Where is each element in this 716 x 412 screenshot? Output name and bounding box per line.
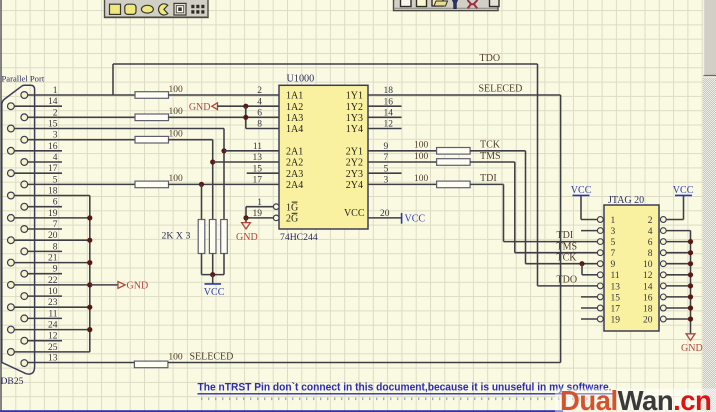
junction on left GND bus row 21: [87, 327, 92, 332]
svg-text:2: 2: [257, 86, 262, 96]
resistor R6 100 (TMS): [437, 159, 471, 166]
junction JTAG GND bus pin 18: [688, 305, 693, 310]
DB25 pin 4: [21, 159, 28, 166]
resistor R1 100 (row pin 1): [135, 92, 169, 99]
JTAG pin 5 circle: [597, 239, 603, 245]
wire DB25 pin 14 row: [14, 105, 62, 107]
svg-text:TMS: TMS: [480, 151, 501, 162]
svg-text:13: 13: [611, 282, 621, 292]
DB25 pin 10: [21, 293, 28, 300]
wire R1 output to U1000 pin 2: [169, 94, 280, 96]
JTAG pin 2 circle: [660, 217, 666, 223]
wire DB25 pin 18 row: [14, 195, 90, 197]
svg-text:8: 8: [53, 242, 58, 252]
wire R2 output to U1000 pin 6: [169, 116, 280, 118]
junction 2K common to VCC: [210, 272, 215, 277]
svg-text:VCC: VCC: [344, 208, 365, 219]
wire R3 output to corner at x=212.7: [169, 139, 213, 141]
svg-text:2: 2: [648, 216, 653, 226]
wire DB25 pin 4 row: [28, 161, 62, 163]
DB25 pin 3: [21, 136, 28, 143]
wire stub JTAG pin 20: [666, 318, 690, 320]
wire GND vertical 1A2-1A4: [245, 106, 247, 128]
svg-text:3: 3: [53, 131, 58, 141]
svg-text:DualWan.cn: DualWan.cn: [560, 385, 711, 412]
power port VCC above JTAG pin 2: [675, 194, 692, 196]
DB25 pin 11: [21, 315, 28, 322]
wire DB25 pin 15 row: [14, 128, 224, 130]
DB25 pin 14: [7, 103, 14, 110]
wire DB25 pin 8 row: [28, 250, 62, 252]
toolbar icon new sheet: [417, 0, 427, 7]
junction JTAG GND bus pin 16: [688, 294, 693, 299]
resistor RP1b 2K (vertical): [209, 220, 216, 254]
svg-text:2Y4: 2Y4: [346, 180, 363, 191]
svg-text:22: 22: [48, 276, 58, 286]
JTAG pin 10 circle: [660, 261, 666, 267]
JTAG pin 6 circle: [660, 239, 666, 245]
svg-text:1Y2: 1Y2: [346, 102, 363, 113]
wire stub JTAG pin 18: [666, 307, 690, 309]
DB25 pin 17: [7, 170, 14, 177]
JTAG pin 7 circle: [597, 250, 603, 256]
wire R4 output to U1000 pin 17: [169, 183, 280, 185]
wire stub JTAG pin 17: [581, 307, 597, 309]
DB25 pin 6: [21, 203, 28, 210]
resistor R7 100 (TDI): [437, 181, 471, 188]
svg-text:VCC: VCC: [673, 185, 694, 196]
wire DB25 pin 12 row: [28, 340, 62, 342]
wire DB25 pin 3 row: [28, 139, 135, 141]
svg-text:9: 9: [611, 260, 616, 270]
vertical scrollbar track: [703, 0, 716, 412]
power port GND (right-pointing) on DB25 ground bus: [90, 284, 118, 286]
power port VCC above JTAG pin 1: [573, 194, 590, 196]
wire SELECED vertical: [560, 95, 562, 363]
connector JTAG 20 body: [604, 205, 659, 331]
wire stub U1000 pin 16: [368, 105, 402, 107]
svg-text:12: 12: [48, 332, 58, 342]
toolbar icon filter funnel: [452, 0, 459, 9]
power port VCC below 2K resistors: [212, 275, 214, 284]
wire RTCK vertical pin9-pin11: [581, 264, 583, 275]
svg-text:6: 6: [53, 198, 58, 208]
wire TDO into JTAG pin 13: [538, 285, 598, 287]
wire TDO vertical down to JTAG pin 13: [537, 64, 539, 286]
wire stub JTAG pin 10: [666, 263, 690, 265]
svg-text:1Y4: 1Y4: [346, 124, 363, 135]
wire DB25 pin 13 row: [28, 362, 135, 364]
svg-text:15: 15: [48, 120, 58, 130]
JTAG pin 9 circle: [597, 261, 603, 267]
svg-text:6: 6: [648, 238, 653, 248]
wire TCK to corner: [470, 150, 525, 152]
wire TMS into JTAG pin 7: [515, 252, 597, 254]
junction at 2G row for GND: [243, 215, 248, 220]
svg-text:2Y2: 2Y2: [346, 158, 363, 169]
wire TCK vertical: [525, 151, 527, 264]
wire stub U1000 pin 5 (2Y3): [368, 172, 402, 174]
schematic sheet left border: [0, 0, 2, 412]
wire U1000 pin 3 to R7: [368, 183, 437, 185]
svg-text:5: 5: [611, 238, 616, 248]
scrollbar thumb: [703, 0, 716, 77]
svg-text:4: 4: [648, 227, 653, 237]
svg-text:GND: GND: [681, 343, 703, 354]
svg-text:4: 4: [257, 97, 262, 107]
resistor RP1a 2K (vertical): [198, 220, 205, 254]
svg-text:12: 12: [643, 271, 653, 281]
svg-text:15: 15: [611, 293, 621, 303]
wire into JTAG pin 11: [582, 274, 597, 276]
DB25 pin 2: [21, 114, 28, 121]
wire DB25 pin 2 row: [28, 116, 135, 118]
svg-text:2G: 2G: [286, 214, 298, 225]
JTAG pin 1 circle: [597, 217, 603, 223]
svg-text:100: 100: [169, 174, 184, 184]
wire DB25 pin 5 row: [28, 183, 135, 185]
resistor R3 100 (row pin 3): [135, 136, 169, 143]
svg-text:2Y3: 2Y3: [346, 169, 363, 180]
svg-text:2A3: 2A3: [286, 169, 303, 180]
wire DB25 pin15 vertical at x=224: [223, 129, 225, 220]
toolbar icon open document: [401, 0, 412, 7]
svg-text:19: 19: [48, 209, 58, 219]
resistor R8 100 (SELECED): [134, 361, 168, 368]
junction JTAG GND bus pin 14: [688, 283, 693, 288]
DB25 pin 16: [7, 147, 14, 154]
bottom window edge (blue): [0, 410, 563, 412]
toolbar icon open sheet: [432, 0, 448, 6]
wire DB25 pin 20 row: [14, 239, 90, 241]
wire JTAG pin 1 to VCC: [581, 219, 597, 221]
toolbar icon cross-probe (red): [468, 0, 478, 8]
drawing toolbar (top left): [105, 0, 209, 18]
wire stub JTAG pin 15: [581, 296, 597, 298]
toolbar icon paste-array tool: [191, 5, 194, 8]
wire 1G-2G vertical: [245, 207, 247, 218]
JTAG pin 19 circle: [597, 316, 603, 322]
svg-text:100: 100: [169, 107, 184, 117]
resistor R2 100 (row pin 2): [135, 114, 169, 121]
svg-text:6: 6: [257, 109, 262, 119]
svg-text:19: 19: [611, 315, 621, 325]
svg-text:7: 7: [53, 220, 58, 230]
svg-text:TDO: TDO: [557, 275, 578, 286]
svg-text:1A4: 1A4: [286, 124, 303, 135]
svg-text:21: 21: [48, 254, 58, 264]
wire stub U1000 pin 15 (2A3): [247, 172, 279, 174]
wire TDI into JTAG pin 5: [504, 241, 598, 243]
svg-text:2: 2: [53, 108, 58, 118]
wire DB25 pin 9 row: [28, 273, 62, 275]
junction TCK/RTCK tie: [579, 261, 584, 266]
JTAG pin 8 circle: [660, 250, 666, 256]
toolbar icon cut (partial at edge): [490, 0, 500, 7]
svg-text:10: 10: [643, 260, 653, 270]
wire stub JTAG pin 19: [581, 318, 597, 320]
wire DB25 pin 6 row: [28, 206, 62, 208]
junction 2A2 net at 2K resistor RP1b: [210, 159, 215, 164]
wire DB25 pin 17 row: [14, 172, 62, 174]
svg-text:17: 17: [48, 164, 58, 174]
svg-text:1A1: 1A1: [286, 91, 303, 102]
svg-text:100: 100: [169, 85, 184, 95]
DB25 pin 13: [21, 360, 28, 367]
svg-text:1A2: 1A2: [286, 102, 303, 113]
svg-text:8: 8: [257, 120, 262, 130]
wire TDI to corner: [470, 183, 503, 185]
wire 2K resistor RP1a vertical: [201, 184, 203, 219]
wire DB25 pin 23 row: [14, 306, 90, 308]
wire DB25 pin 25 row: [14, 351, 90, 353]
toolbar icon rounded-rectangle tool: [125, 4, 136, 14]
wire TMS to corner: [470, 161, 515, 163]
svg-text:2A4: 2A4: [286, 180, 303, 191]
svg-text:24: 24: [48, 321, 58, 331]
wire DB25 pin 11 row: [28, 317, 62, 319]
DB25 pin 8: [21, 248, 28, 255]
svg-text:13: 13: [48, 354, 58, 364]
JTAG pin 12 circle: [660, 272, 666, 278]
svg-text:1Y1: 1Y1: [346, 91, 363, 102]
svg-text:TDO: TDO: [480, 53, 501, 64]
resistor R4 100 (row pin 5): [135, 181, 169, 188]
JTAG pin 14 circle: [660, 283, 666, 289]
junction on left GND bus row 19: [87, 305, 92, 310]
wire U1000 pin 9 to R5: [368, 150, 437, 152]
svg-text:JTAG 20: JTAG 20: [608, 195, 644, 206]
ground symbol at JTAG: [686, 334, 695, 341]
junction on left GND bus row 15: [87, 260, 92, 265]
JTAG pin 20 circle: [660, 316, 666, 322]
wire stub JTAG pin 8: [666, 252, 690, 254]
junction GND net at 1A3 row: [243, 115, 248, 120]
DB25 pin 22: [7, 282, 14, 289]
svg-text:16: 16: [48, 142, 58, 152]
svg-text:1G: 1G: [286, 202, 298, 213]
IC U1000 74HC244 body: [279, 85, 368, 229]
svg-text:U1000: U1000: [287, 73, 315, 84]
DB25 pin 23: [7, 304, 14, 311]
svg-text:13: 13: [253, 153, 263, 163]
svg-text:100: 100: [169, 130, 184, 140]
DB25 pin 15: [7, 125, 14, 132]
svg-text:TMS: TMS: [557, 241, 578, 252]
wire DB25 pin 1 row: [28, 94, 135, 96]
DB25 pin 18: [7, 192, 14, 199]
watermark logo background halo: [555, 389, 716, 412]
wire TDO top horizontal run: [113, 63, 538, 65]
wire JTAG GND bus vertical: [690, 231, 692, 334]
connector J? DB25 parallel port body: [2, 85, 35, 374]
svg-text:SELECED: SELECED: [479, 84, 523, 95]
wire DB25 pin 21 row: [14, 262, 90, 264]
svg-text:17: 17: [253, 176, 263, 186]
U1000 2G inverting bubble: [273, 215, 279, 221]
main toolbar fragment (top, partially cut off): [394, 0, 499, 11]
svg-text:1: 1: [53, 86, 58, 96]
svg-text:GND: GND: [189, 102, 211, 113]
svg-text:100: 100: [414, 174, 429, 184]
svg-text:11: 11: [48, 309, 57, 319]
svg-text:11: 11: [611, 271, 620, 281]
JTAG pin 16 circle: [660, 294, 666, 300]
wire stub U1000 pin 12: [368, 128, 402, 130]
svg-text:9: 9: [53, 265, 58, 275]
DB25 pin 25: [7, 349, 14, 356]
wire R3 net vertical at x=212.7: [212, 140, 214, 220]
wire U1000 pin 7 to R6: [368, 161, 437, 163]
wire DB25 pin 24 row: [14, 329, 90, 331]
wire stub JTAG pin 12: [666, 274, 690, 276]
DB25 pin 21: [7, 259, 14, 266]
resistor R5 100 (TCK): [437, 148, 471, 155]
svg-text:2A1: 2A1: [286, 146, 303, 157]
wire TDI vertical: [503, 184, 505, 241]
wire to U1000 pin 11 (2A1): [224, 150, 279, 152]
svg-text:16: 16: [643, 293, 653, 303]
junction JTAG GND bus pin 10: [688, 261, 693, 266]
wire stub JTAG pin 14: [666, 285, 690, 287]
wire DB25 pin 16 row: [14, 150, 62, 152]
svg-text:3: 3: [611, 227, 616, 237]
svg-text:TDI: TDI: [557, 230, 574, 241]
wire stub JTAG pin 16: [666, 296, 690, 298]
junction JTAG GND bus pin 12: [688, 272, 693, 277]
wire TMS vertical: [514, 162, 516, 253]
wire to U1000 pin 8 (1A4): [246, 128, 279, 130]
wire DB25 pin 22 row: [14, 284, 90, 286]
svg-text:TDI: TDI: [480, 173, 497, 184]
power port VCC at U1000 pin 20: [401, 213, 403, 224]
svg-text:11: 11: [253, 142, 262, 152]
svg-text:8: 8: [648, 249, 653, 259]
wire U1000 pin 18 SELECED net: [368, 94, 561, 96]
svg-text:TCK: TCK: [557, 252, 578, 263]
junction JTAG GND bus pin 20: [688, 316, 693, 321]
wire DB25 pin 10 row: [28, 295, 62, 297]
wire to 1G bubble: [246, 206, 273, 208]
wire RP1a bottom: [201, 254, 203, 275]
wire to U1000 pin 13 (2A2): [213, 161, 279, 163]
svg-text:DB25: DB25: [1, 376, 24, 387]
junction on left GND bus row 17: [87, 282, 92, 287]
wire JTAG pin 2 to VCC: [666, 219, 683, 221]
DB25 pin 12: [21, 337, 28, 344]
JTAG pin 11 circle: [597, 272, 603, 278]
DB25 pin 5: [21, 181, 28, 188]
annotation tick row: [201, 397, 610, 400]
svg-text:20: 20: [643, 315, 653, 325]
svg-text:10: 10: [48, 287, 58, 297]
wire stub U1000 pin 14: [368, 116, 402, 118]
JTAG pin 18 circle: [660, 305, 666, 311]
DB25 pin 24: [7, 326, 14, 333]
svg-text:SELECED: SELECED: [190, 352, 234, 363]
svg-text:23: 23: [48, 298, 58, 308]
JTAG pin 13 circle: [597, 283, 603, 289]
wire RP1b bottom: [212, 254, 214, 275]
wire RP1c bottom: [223, 254, 225, 275]
svg-text:18: 18: [643, 304, 653, 314]
svg-text:The nTRST Pin don`t connect i: The nTRST Pin don`t connect in this docu…: [198, 381, 612, 393]
DB25 pin 7: [21, 226, 28, 233]
svg-text:VCC: VCC: [204, 287, 225, 298]
svg-text:17: 17: [611, 304, 621, 314]
svg-text:100: 100: [168, 353, 183, 363]
svg-text:100: 100: [414, 152, 429, 162]
svg-text:TCK: TCK: [480, 140, 501, 151]
svg-text:7: 7: [611, 249, 616, 259]
wire TCK into JTAG pin 9: [526, 263, 598, 265]
wire U1000 pin 20 to VCC: [368, 217, 401, 219]
svg-text:VCC: VCC: [571, 185, 592, 196]
svg-text:1: 1: [611, 216, 616, 226]
wire GND port to U1000 pin 4: [218, 105, 280, 107]
svg-text:2A2: 2A2: [286, 158, 303, 169]
wire DB25 pin 19 row: [14, 217, 90, 219]
junction 2A1 net at 2K resistor RP1c: [221, 148, 226, 153]
svg-text:14: 14: [48, 97, 58, 107]
svg-text:74HC244: 74HC244: [280, 232, 318, 243]
DB25 pin 9: [21, 270, 28, 277]
DB25 pin 1: [21, 92, 28, 99]
JTAG pin 15 circle: [597, 294, 603, 300]
JTAG pin 3 circle: [597, 228, 603, 234]
junction on left GND bus row 13: [87, 238, 92, 243]
junction on left GND bus row 11: [87, 215, 92, 220]
JTAG pin 4 circle: [660, 228, 666, 234]
svg-text:Parallel Port: Parallel Port: [2, 74, 45, 84]
wire DB25 pin 7 row: [28, 228, 62, 230]
junction GND net at 1A2 row: [243, 104, 248, 109]
svg-text:VCC: VCC: [405, 213, 426, 224]
wire R8 to SELECED vertical: [168, 362, 561, 364]
wire 2K resistors common bottom: [202, 274, 225, 276]
toolbar icon pie-chart tool: [158, 4, 167, 15]
wire to 2G bubble: [246, 217, 273, 219]
toolbar icon graph tool: [174, 3, 186, 15]
DB25 pin 20: [7, 237, 14, 244]
svg-text:20: 20: [48, 231, 58, 241]
svg-text:GND: GND: [236, 232, 258, 243]
ground symbol below 1G/2G: [245, 218, 247, 223]
svg-text:15: 15: [253, 164, 263, 174]
wire stub JTAG pin 6: [666, 241, 690, 243]
wire GND bus vertical left: [89, 196, 91, 352]
svg-text:1A3: 1A3: [286, 113, 303, 124]
toolbar icon ellipse tool: [141, 5, 153, 13]
U1000 1G inverting bubble: [273, 204, 279, 210]
svg-text:100: 100: [414, 141, 429, 151]
svg-text:GND: GND: [127, 281, 149, 292]
DB25 pin 19: [7, 215, 14, 222]
svg-text:2K X 3: 2K X 3: [162, 231, 191, 242]
wire stub JTAG pin 3: [581, 230, 597, 232]
junction JTAG GND bus pin 8: [688, 250, 693, 255]
junction JTAG GND bus pin 6: [688, 239, 693, 244]
svg-text:18: 18: [48, 187, 58, 197]
svg-text:2Y1: 2Y1: [346, 146, 363, 157]
svg-text:4: 4: [53, 153, 58, 163]
svg-text:14: 14: [643, 282, 653, 292]
resistor RP1c 2K (vertical): [221, 220, 228, 254]
junction 2A4 net at 2K resistor RP1a: [199, 182, 204, 187]
svg-text:25: 25: [48, 343, 58, 353]
wire stub JTAG pin 4: [666, 230, 690, 232]
svg-text:5: 5: [53, 175, 58, 185]
